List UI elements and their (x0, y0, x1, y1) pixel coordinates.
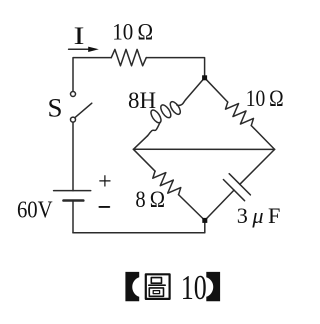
bridge arm: wire top node to resistor R2 (205, 78, 228, 102)
battery 60V short negative plate (64, 199, 84, 202)
svg-text:10: 10 (181, 268, 207, 307)
junction node bottom (dot) (202, 218, 207, 223)
inductor L1 8H coil entry squiggle (148, 122, 161, 136)
svg-text:60V: 60V (17, 198, 53, 224)
bottom rail wire to bottom node (73, 220, 205, 232)
wire R2 to right vertex (251, 126, 274, 150)
inductor L1 8H coil loop 2 (159, 103, 173, 119)
wire top-left horizontal from corner to resistor R1 (73, 58, 111, 92)
bridge arm: wire top node to inductor (186, 78, 205, 100)
svg-text:8 Ω: 8 Ω (135, 187, 165, 212)
resistor R1 10ohm (top series) (111, 49, 146, 65)
battery 60V long positive plate (54, 190, 91, 192)
current arrow (69, 48, 90, 50)
inductor L1 8H coil loop 1 (149, 108, 163, 124)
switch S top terminal (71, 92, 76, 97)
capacitor C1 plate lower (223, 180, 244, 201)
svg-text:8H: 8H (128, 88, 156, 113)
svg-text:S: S (48, 94, 63, 123)
wire battery to bottom rail (72, 201, 74, 233)
svg-text:I: I (74, 23, 85, 50)
caption right lenticular bracket (206, 272, 220, 301)
battery minus label (99, 206, 109, 208)
wire switch to battery (72, 122, 74, 190)
caption character tu (figure) (146, 274, 170, 299)
svg-text:10 Ω: 10 Ω (112, 20, 153, 45)
resistor R3 8ohm (bridge left-bottom) (153, 171, 181, 195)
bridge arm: wire left vertex to resistor R3 (133, 149, 155, 171)
resistor R2 10ohm (bridge right-top) (226, 102, 254, 126)
junction node top (dot) (202, 75, 207, 80)
wire from R1 to top node (146, 58, 204, 76)
svg-text:10 Ω: 10 Ω (246, 86, 284, 111)
wire R3 to bottom node (179, 195, 205, 221)
switch S bottom terminal (71, 117, 76, 122)
capacitor C1 plate upper (229, 174, 250, 195)
wire capacitor to bottom node (205, 190, 234, 220)
inductor L1 8H coil loop 3 (168, 100, 182, 116)
wire inductor to left vertex (133, 136, 147, 150)
svg-text:+: + (98, 169, 112, 195)
switch S blade (75, 103, 92, 117)
bridge arm: wire right vertex to capacitor C1 (240, 149, 275, 184)
inductor L1 8H coil exit squiggle (177, 100, 186, 106)
caption left lenticular bracket (125, 272, 139, 301)
bridge middle wire left vertex to right vertex (133, 148, 274, 150)
svg-text:3 μ F: 3 μ F (237, 203, 281, 228)
